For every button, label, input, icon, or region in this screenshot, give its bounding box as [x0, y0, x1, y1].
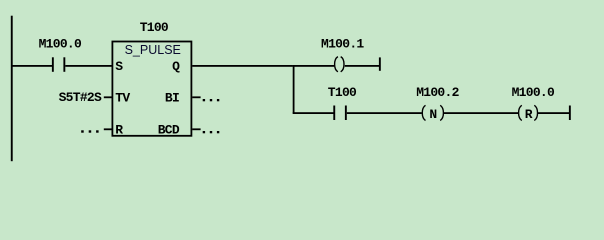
coil M100.1: [321, 37, 364, 72]
contact T100: [328, 85, 357, 120]
svg-text:TV: TV: [115, 91, 130, 106]
svg-text:T100: T100: [328, 85, 357, 100]
svg-text:Q: Q: [172, 59, 180, 74]
wire contact to timer box: [65, 65, 112, 67]
svg-text:M100.0: M100.0: [39, 37, 82, 52]
svg-text:M100.2: M100.2: [416, 85, 459, 100]
wire BCD output stub: [192, 128, 200, 130]
svg-text:R: R: [525, 107, 533, 122]
timer box U1 S_PULSE: [112, 42, 191, 136]
svg-text:M100.0: M100.0: [512, 85, 555, 100]
svg-text:M100.1: M100.1: [321, 37, 364, 52]
wire junction to coil M100.1: [293, 65, 335, 67]
wire rail to contact M100.0: [11, 65, 52, 67]
wire coil M100.2 to coil M100.0: [444, 112, 519, 114]
svg-text:T100: T100: [140, 20, 169, 35]
svg-text:N: N: [429, 107, 436, 122]
wire contact T100 to coil M100.2: [347, 112, 422, 114]
svg-text:S_PULSE: S_PULSE: [125, 43, 181, 57]
svg-text:S: S: [115, 59, 123, 74]
svg-text:BCD: BCD: [158, 122, 180, 137]
svg-text:BI: BI: [165, 91, 179, 106]
wire Q output to branch junction: [192, 65, 293, 67]
right rail terminal rung 2: [569, 106, 571, 121]
coil M100.2 (N): [416, 85, 459, 122]
wire coil M100.0 to rail end: [538, 112, 570, 114]
svg-text:R: R: [115, 122, 123, 137]
node open BI output dots: [203, 99, 220, 101]
coil M100.0 (R): [512, 85, 555, 122]
node branch junction: [293, 65, 295, 114]
left power rail: [11, 16, 13, 162]
wire junction to contact T100: [293, 112, 334, 114]
svg-text:S5T#2S: S5T#2S: [59, 90, 102, 105]
wire coil M100.1 to rail end: [345, 65, 380, 67]
node open R input dots: [81, 130, 98, 132]
wire BI output stub: [192, 96, 200, 98]
wire stub to R: [104, 128, 113, 130]
contact M100.0: [39, 37, 82, 72]
node open BCD output dots: [203, 131, 220, 133]
right rail terminal rung 1: [379, 57, 381, 70]
wire S5T#2S stub to TV: [104, 96, 113, 98]
